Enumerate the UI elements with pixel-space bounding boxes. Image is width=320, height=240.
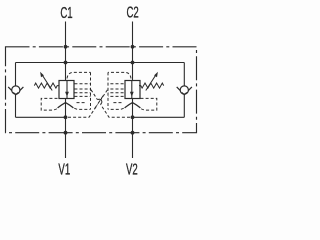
wire: right bottom rail	[133, 116, 185, 118]
pilot rung a	[108, 83, 124, 85]
crossed pilot line from V1 to valve 2	[68, 89, 108, 117]
valve 1 flow arrow	[66, 81, 68, 99]
port line C2	[132, 22, 134, 81]
wire: left bottom rail	[16, 116, 66, 118]
pilot rung b	[74, 88, 90, 90]
pilot rung c	[108, 92, 124, 94]
spring 2 adjust arrow	[146, 75, 156, 91]
spring chamber loop	[140, 98, 156, 110]
valve 1 seat wings	[58, 103, 74, 108]
drain to seat	[108, 108, 124, 109]
valve 1 pilot dashes	[41, 72, 90, 110]
check valve CV1 ball	[12, 86, 20, 94]
check valve CV1 seat	[8, 87, 23, 95]
pilot rung a	[74, 83, 90, 85]
pilot rung e	[74, 95, 90, 97]
pilot rung d	[112, 102, 122, 104]
check valve CV2 seat tip	[182, 93, 187, 95]
pilot box vertical	[107, 72, 109, 109]
crossing hop	[96, 99, 102, 105]
valve 2 pilot dashes	[108, 72, 157, 110]
inner rail top	[16, 62, 185, 64]
spring chamber loop	[41, 98, 57, 110]
pilot hook from C2	[108, 72, 131, 78]
valve 2 flow arrow	[131, 81, 133, 99]
junction dots	[64, 45, 135, 135]
boundary box (phantom dash-dot)	[6, 47, 197, 133]
pilot box vertical	[90, 72, 92, 109]
crossed pilot line from V2 to valve 1	[91, 89, 131, 117]
svg-text:C1: C1	[60, 3, 72, 21]
svg-text:V2: V2	[126, 160, 138, 178]
pilot rung b	[108, 88, 124, 90]
spring 2	[139, 83, 164, 88]
pilot hook from C1	[67, 72, 91, 78]
spring 1	[34, 83, 59, 88]
valve body square 2	[125, 81, 140, 99]
wire: valve 1 outlet to junction	[65, 99, 67, 118]
check valve CV2 seat	[177, 87, 192, 95]
spring 1 adjust arrow	[42, 75, 52, 91]
wire: valve 2 outlet to junction	[132, 99, 134, 118]
pilot rung d	[77, 102, 87, 104]
svg-text:V1: V1	[58, 160, 70, 178]
wire: right check branch vertical	[183, 63, 185, 118]
valve 2 seat wings	[125, 103, 141, 108]
pilot rung e	[108, 95, 124, 97]
check valve CV1 seat tip	[13, 93, 18, 95]
svg-text:C2: C2	[126, 3, 138, 21]
pilot rung c	[74, 92, 90, 94]
port line C1	[65, 22, 67, 81]
valve body square 1	[59, 81, 74, 99]
port line V2	[132, 117, 134, 158]
port line V1	[65, 117, 67, 158]
drain to seat	[74, 108, 90, 109]
check valve CV2 ball	[180, 86, 188, 94]
wire: left check branch vertical	[15, 63, 17, 118]
